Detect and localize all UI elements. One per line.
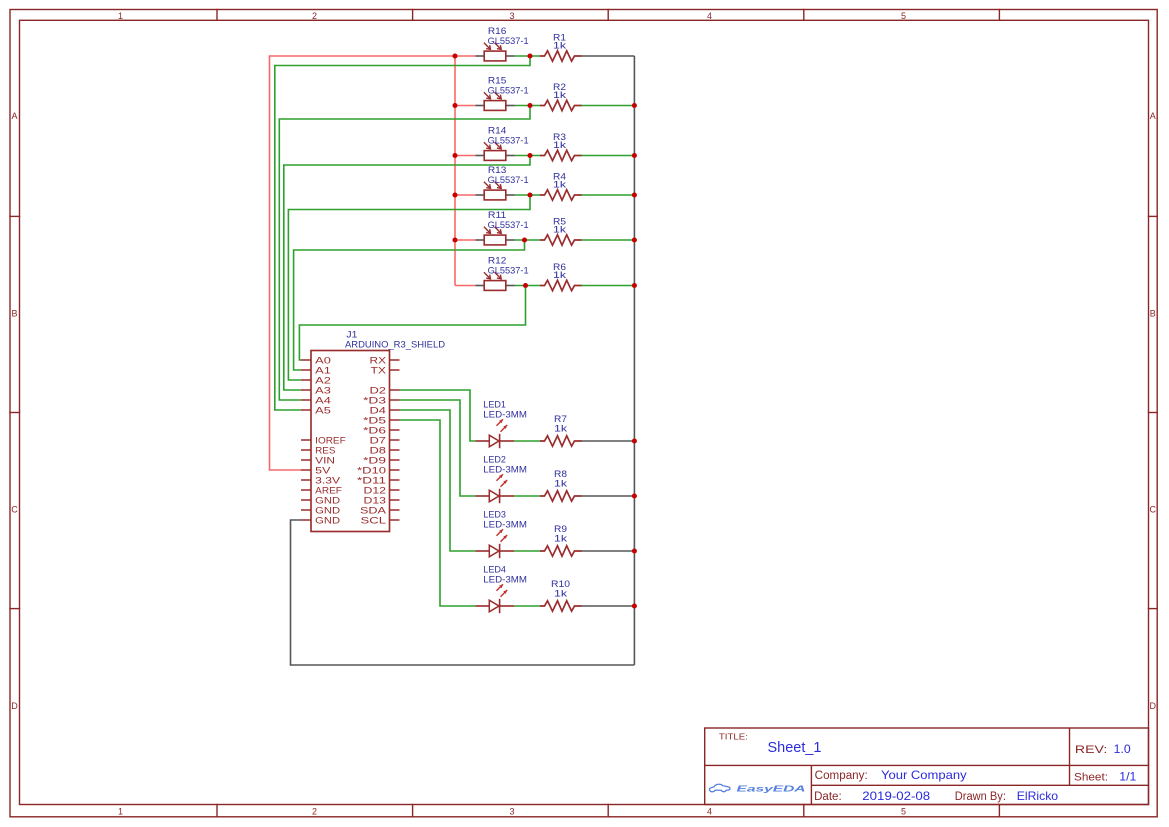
resistor R8 1k xyxy=(540,469,582,501)
LED LED3 LED-3MM xyxy=(476,510,527,559)
J1 pin VIN (left, y=460) xyxy=(301,455,335,466)
wire green LED3 cathode to R9 xyxy=(514,550,541,552)
svg-text:TX: TX xyxy=(371,365,387,376)
svg-text:C: C xyxy=(1150,505,1157,515)
photoresistor R14 GL5537-1 xyxy=(476,126,529,161)
svg-text:5: 5 xyxy=(901,11,906,21)
svg-text:Date:: Date: xyxy=(814,791,842,803)
photoresistor R11 GL5537-1 xyxy=(476,210,529,245)
svg-text:GND: GND xyxy=(315,515,340,526)
svg-text:1k: 1k xyxy=(554,424,567,435)
svg-text:B: B xyxy=(11,309,17,319)
wire green net A4: from LDR junction to pin A4 xyxy=(279,106,530,401)
wire green LDR5 to R5 xyxy=(515,239,541,241)
wire green R2 to bus xyxy=(581,105,634,107)
wire red stub to photoresistor row 4 xyxy=(455,194,476,196)
svg-text:LED-3MM: LED-3MM xyxy=(483,575,527,586)
svg-text:GL5537-1: GL5537-1 xyxy=(488,220,529,231)
wire gray R1 to bus top corner xyxy=(581,55,634,57)
photoresistor R16 GL5537-1 xyxy=(476,26,529,61)
svg-text:C: C xyxy=(11,505,18,515)
svg-text:3: 3 xyxy=(509,807,514,817)
wire 5V net red: top horizontal, left vertical to 5V pin xyxy=(270,56,456,470)
wire green net D2 to LED1 anode xyxy=(400,390,476,441)
svg-text:TITLE:: TITLE: xyxy=(719,732,748,741)
J1 pin D2 (right, y=390) xyxy=(370,385,400,396)
photoresistor R12 GL5537-1 xyxy=(476,256,529,291)
wire green net D4 to LED3 anode xyxy=(400,410,476,551)
J1 pin D12 (right, y=490) xyxy=(364,485,400,496)
svg-text:A: A xyxy=(1150,111,1156,121)
wire green LDR3 to R3 xyxy=(515,155,541,157)
J1 pin *D10 (right, y=470) xyxy=(357,465,400,476)
J1 pin D7 (right, y=440) xyxy=(370,435,400,446)
svg-text:1k: 1k xyxy=(553,179,566,190)
J1 pin A4 (left, y=400) xyxy=(301,395,331,406)
title block frame xyxy=(705,728,1149,805)
wire gray R10 to ground bus xyxy=(581,605,634,607)
svg-text:LED-3MM: LED-3MM xyxy=(483,520,527,531)
svg-text:2019-02-08: 2019-02-08 xyxy=(862,789,930,803)
connector J1 ARDUINO_R3_SHIELD body xyxy=(311,351,390,532)
wire gray ground bus right vertical xyxy=(633,56,635,665)
svg-text:GL5537-1: GL5537-1 xyxy=(488,175,529,186)
resistor R2 1k xyxy=(540,82,582,111)
resistor R9 1k xyxy=(540,524,582,556)
resistor R10 1k xyxy=(540,579,582,611)
svg-text:4: 4 xyxy=(707,11,712,21)
wire green net D5 to LED4 anode xyxy=(400,420,476,606)
svg-text:ElRicko: ElRicko xyxy=(1017,789,1059,803)
J1 pin D13 (right, y=500) xyxy=(364,495,400,506)
junction dots at photoresistor outputs xyxy=(527,53,532,58)
svg-text:LED-3MM: LED-3MM xyxy=(483,465,527,476)
svg-text:1k: 1k xyxy=(553,40,566,51)
resistor R4 1k xyxy=(540,171,582,200)
svg-text:1k: 1k xyxy=(554,534,567,545)
J1 pin GND (left, y=510) xyxy=(301,505,340,516)
wire green net A0: from LDR junction to pin A0 xyxy=(299,286,525,361)
svg-text:A: A xyxy=(11,111,17,121)
svg-text:1k: 1k xyxy=(553,270,566,281)
J1 pin A3 (left, y=390) xyxy=(301,385,331,396)
svg-text:Your Company: Your Company xyxy=(881,768,967,782)
resistor R5 1k xyxy=(540,216,582,245)
resistor R3 1k xyxy=(540,132,582,161)
junction dots on 5V red vertical xyxy=(452,53,457,58)
LED LED1 LED-3MM xyxy=(476,400,527,449)
svg-text:B: B xyxy=(1150,309,1156,319)
wire green LED1 cathode to R7 xyxy=(514,440,541,442)
J1 pin IOREF (left, y=440) xyxy=(301,435,346,446)
wire green LDR4 to R4 xyxy=(515,194,541,196)
svg-text:GL5537-1: GL5537-1 xyxy=(488,36,529,47)
svg-text:Drawn By:: Drawn By: xyxy=(955,791,1006,803)
svg-text:2: 2 xyxy=(312,807,317,817)
wire red stub to photoresistor row 2 xyxy=(455,105,476,107)
svg-text:EasyEDA: EasyEDA xyxy=(737,785,806,794)
J1 pin SCL (right, y=520) xyxy=(361,515,400,526)
EasyEDA logo xyxy=(709,784,806,793)
J1 pin *D6 (right, y=430) xyxy=(363,425,399,436)
svg-text:Company:: Company: xyxy=(815,770,868,782)
wire gray R8 to ground bus xyxy=(581,495,634,497)
svg-text:1k: 1k xyxy=(554,589,567,600)
J1 pin RES (left, y=450) xyxy=(301,445,336,456)
wire green LDR2 to R2 xyxy=(515,105,541,107)
J1 pin *D9 (right, y=460) xyxy=(363,455,399,466)
svg-text:1/1: 1/1 xyxy=(1119,770,1136,784)
wire gray ground return: bus bottom to GND pin xyxy=(291,520,635,665)
wire green LED4 cathode to R10 xyxy=(514,605,541,607)
resistor R7 1k xyxy=(540,414,582,446)
wire green net A5: from LDR junction to pin A5 xyxy=(275,56,530,410)
J1 pin RX (right, y=360) xyxy=(370,355,400,366)
LED LED4 LED-3MM xyxy=(476,565,527,614)
svg-text:D: D xyxy=(1150,701,1157,711)
wire red stub to photoresistor row 6 xyxy=(455,285,476,287)
J1 pin D4 (right, y=410) xyxy=(370,405,400,416)
J1 pin GND (left, y=500) xyxy=(301,495,340,506)
wire red stub to photoresistor row 1 xyxy=(455,55,476,57)
wire red stub to photoresistor row 3 xyxy=(455,155,476,157)
svg-text:GL5537-1: GL5537-1 xyxy=(488,86,529,97)
J1 pin *D11 (right, y=480) xyxy=(357,475,400,486)
wire green LDR1 to R1 xyxy=(515,55,541,57)
svg-text:4: 4 xyxy=(707,807,712,817)
wire green net A1: from LDR junction to pin A1 xyxy=(294,240,525,370)
wire green net A3: from LDR junction to pin A3 xyxy=(284,156,530,391)
photoresistor R13 GL5537-1 xyxy=(476,165,529,200)
svg-text:LED-3MM: LED-3MM xyxy=(483,410,527,421)
wire green LDR6 to R6 xyxy=(515,285,541,287)
wire green net A2: from LDR junction to pin A2 xyxy=(288,195,530,380)
wire green net D3 to LED2 anode xyxy=(400,400,476,496)
svg-text:ARDUINO_R3_SHIELD: ARDUINO_R3_SHIELD xyxy=(345,339,445,350)
wire green R3 to bus xyxy=(581,155,634,157)
svg-text:D: D xyxy=(11,701,18,711)
svg-text:1: 1 xyxy=(118,11,123,21)
svg-text:SCL: SCL xyxy=(361,515,387,526)
svg-text:GL5537-1: GL5537-1 xyxy=(488,266,529,277)
wire gray R9 to ground bus xyxy=(581,550,634,552)
svg-text:REV:: REV: xyxy=(1075,744,1107,756)
wire green R5 to bus xyxy=(581,239,634,241)
LED LED2 LED-3MM xyxy=(476,455,527,504)
svg-text:Sheet_1: Sheet_1 xyxy=(768,739,822,756)
svg-text:3: 3 xyxy=(509,11,514,21)
J1 pin SDA (right, y=510) xyxy=(360,505,400,516)
svg-text:1k: 1k xyxy=(554,479,567,490)
J1 pin AREF (left, y=490) xyxy=(301,485,342,496)
J1 pin A2 (left, y=380) xyxy=(301,375,331,386)
svg-text:2: 2 xyxy=(312,11,317,21)
resistor R1 1k xyxy=(540,32,582,61)
svg-text:1k: 1k xyxy=(553,224,566,235)
svg-text:A5: A5 xyxy=(315,405,331,416)
wire 5V net red vertical feeding photoresistors xyxy=(454,56,456,286)
J1 pin A0 (left, y=360) xyxy=(301,355,331,366)
J1 pin *D3 (right, y=400) xyxy=(363,395,399,406)
photoresistor R15 GL5537-1 xyxy=(476,76,529,111)
junction dots on ground bus xyxy=(632,103,637,108)
svg-text:1k: 1k xyxy=(553,90,566,101)
svg-text:1k: 1k xyxy=(553,140,566,151)
svg-text:GL5537-1: GL5537-1 xyxy=(488,136,529,147)
svg-text:1: 1 xyxy=(118,807,123,817)
wire red stub to photoresistor row 5 xyxy=(455,239,476,241)
J1 pin TX (right, y=370) xyxy=(371,365,400,376)
resistor R6 1k xyxy=(540,262,582,291)
J1 pin A1 (left, y=370) xyxy=(301,365,331,376)
wire gray R7 to ground bus xyxy=(581,440,634,442)
wire green R6 to bus xyxy=(581,285,634,287)
J1 pin *D5 (right, y=420) xyxy=(363,415,399,426)
svg-text:Sheet:: Sheet: xyxy=(1074,772,1108,784)
J1 pin 3.3V (left, y=480) xyxy=(301,475,341,486)
svg-text:1.0: 1.0 xyxy=(1114,742,1131,756)
J1 pin 5V (left, y=470) xyxy=(301,465,331,476)
wire green LED2 cathode to R8 xyxy=(514,495,541,497)
wire green R4 to bus xyxy=(581,194,634,196)
J1 pin GND (left, y=520) xyxy=(301,515,340,526)
svg-text:5: 5 xyxy=(901,807,906,817)
J1 pin D8 (right, y=450) xyxy=(370,445,400,456)
J1 pin A5 (left, y=410) xyxy=(301,405,331,416)
